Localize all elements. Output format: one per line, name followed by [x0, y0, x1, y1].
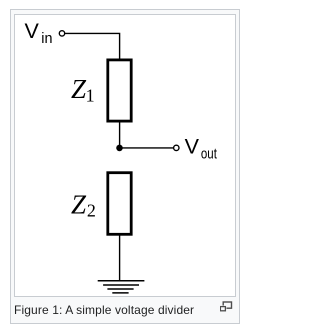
node Vin label [25, 19, 53, 47]
thumbnail frame [10, 9, 240, 324]
circuit schematic [0, 0, 249, 332]
image area [14, 14, 236, 297]
wire node to Vout [120, 147, 174, 149]
svg-text:out: out [201, 147, 217, 163]
svg-text:2: 2 [87, 201, 96, 221]
wire Z1 to node [119, 122, 121, 147]
label Z1 [71, 74, 95, 105]
junction node [116, 145, 123, 152]
svg-text:V: V [185, 135, 200, 159]
svg-text:in: in [41, 31, 52, 47]
terminal Vout [174, 145, 179, 150]
caption [14, 303, 220, 317]
svg-text:V: V [25, 19, 40, 43]
wire Z2 to ground [119, 235, 121, 281]
impedance Z1 [108, 60, 131, 121]
impedance Z2 [108, 173, 131, 235]
label Z2 [71, 189, 96, 220]
terminal Vin [59, 31, 64, 36]
svg-text:Z: Z [71, 74, 87, 104]
svg-text:Z: Z [71, 189, 87, 219]
ground [98, 281, 145, 293]
magnify icon [220, 300, 235, 315]
wire Vin to Z1 [65, 33, 120, 59]
node Vout label [185, 135, 217, 163]
svg-text:1: 1 [86, 85, 95, 105]
